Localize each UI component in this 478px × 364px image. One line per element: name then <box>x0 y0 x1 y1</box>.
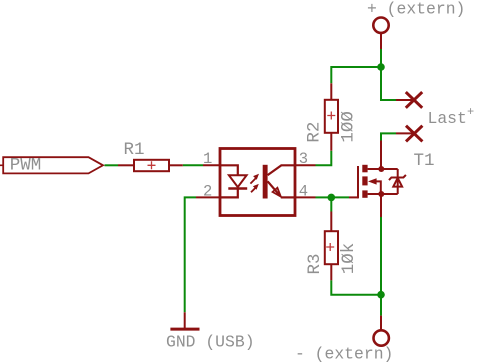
pin lead R3 bottom <box>330 264 332 280</box>
wire R1 to opto pin 1 <box>183 164 203 166</box>
pin lead opto pin 2 <box>196 196 220 198</box>
svg-text:+: + <box>467 105 474 119</box>
transistor T1 source junction dot <box>378 191 384 197</box>
svg-text:R2: R2 <box>305 122 325 143</box>
resistor R3 body <box>325 231 338 264</box>
optocoupler LED triangle <box>229 175 247 187</box>
wire opto pin 3 to R2 bottom <box>316 151 332 166</box>
optocoupler collector path <box>268 165 295 175</box>
svg-text:1Øk: 1Øk <box>339 243 359 275</box>
optocoupler light arrow 1 <box>250 178 255 183</box>
svg-text:1: 1 <box>203 150 212 168</box>
optocoupler emitter path <box>268 181 280 195</box>
wire node A down to X1 stub <box>381 67 396 100</box>
transistor T1 body diode line <box>397 169 399 194</box>
optocoupler light arrow 2 <box>251 187 256 192</box>
top connector pin circle <box>373 18 388 33</box>
pin lead R1 left <box>118 164 134 166</box>
svg-text:4: 4 <box>299 183 308 201</box>
bottom connector pin circle <box>374 330 389 345</box>
svg-text:Last: Last <box>428 109 467 128</box>
transistor T1 drain channel bar <box>362 165 367 173</box>
resistor R2 origin cross <box>327 112 335 120</box>
X mark 2 load cut <box>406 126 422 142</box>
PWM flag outline <box>3 157 103 173</box>
pin lead R2 top <box>330 83 332 100</box>
svg-text:1ØØ: 1ØØ <box>339 111 359 143</box>
node B junction dot <box>328 194 336 202</box>
ground symbol GND <box>170 328 199 331</box>
pin lead R2 bottom <box>330 133 332 151</box>
transistor T1 body diode triangle <box>393 178 402 187</box>
svg-text:- (extern): - (extern) <box>295 345 393 364</box>
wire opto pin 2 to GND <box>185 197 196 312</box>
optocoupler LED cathode path <box>220 189 238 198</box>
pin lead R3 top <box>330 212 332 232</box>
pin lead top connector <box>380 30 382 49</box>
transistor T1 body diode zener bar <box>389 175 406 180</box>
optocoupler U1 box <box>220 149 295 216</box>
pin lead T1 gate <box>349 196 358 198</box>
optocoupler emitter arrowhead <box>273 188 281 197</box>
svg-text:R1: R1 <box>124 140 145 160</box>
pin lead T1 source <box>380 194 382 217</box>
svg-text:3: 3 <box>299 150 308 168</box>
wire R2 top to node A to top connector <box>331 49 381 83</box>
svg-text:+ (extern): + (extern) <box>367 0 465 18</box>
node C junction dot <box>377 291 385 299</box>
wire PWM flag to R1 <box>105 164 119 166</box>
pin lead X1 stub <box>396 99 414 101</box>
wire node C to bottom connector <box>380 295 382 316</box>
node A junction dot <box>377 63 385 71</box>
wire node B to T1 gate <box>331 196 349 198</box>
pin lead opto pin 1 <box>203 164 220 166</box>
transistor T1 source line <box>368 193 398 195</box>
svg-text:T1: T1 <box>414 151 435 171</box>
svg-text:R3: R3 <box>305 253 325 274</box>
resistor R1 origin cross <box>148 161 156 169</box>
pin lead opto pin 4 <box>295 196 316 198</box>
PWM flag tick <box>0 164 3 166</box>
pin lead bottom connector <box>380 316 382 330</box>
svg-text:2: 2 <box>203 183 212 201</box>
transistor T1 drain junction dot <box>378 166 384 172</box>
optocoupler emitter exit <box>281 196 295 198</box>
pin lead T1 drain <box>380 141 382 170</box>
svg-text:GND (USB): GND (USB) <box>166 333 255 352</box>
optocoupler LED anode path <box>220 165 238 175</box>
X mark 1 load cut <box>406 92 422 108</box>
resistor R3 origin cross <box>326 243 334 251</box>
pin lead R1 right <box>169 164 183 166</box>
wire node B down to R3 top <box>330 197 332 211</box>
transistor T1 gate line <box>357 166 359 198</box>
wire opto pin 4 to node B <box>316 196 332 198</box>
optocoupler LED cathode bar <box>228 187 247 190</box>
wire X2 stub to T1 drain <box>381 133 396 140</box>
pin lead opto pin 3 <box>295 164 316 166</box>
optocoupler phototransistor base bar <box>263 165 268 199</box>
wire T1 source to node C <box>380 217 382 295</box>
pin lead GND symbol <box>184 312 186 329</box>
wire R3 bottom to node C <box>331 280 381 294</box>
transistor T1 body tap with arrow <box>372 181 381 194</box>
resistor R2 body <box>325 100 338 133</box>
transistor T1 drain line <box>368 168 398 170</box>
transistor T1 source channel bar <box>362 190 367 197</box>
transistor T1 body channel bar <box>362 176 367 185</box>
resistor R1 body <box>134 160 169 171</box>
svg-text:PWM: PWM <box>10 156 42 176</box>
pin lead X2 stub <box>396 132 414 134</box>
